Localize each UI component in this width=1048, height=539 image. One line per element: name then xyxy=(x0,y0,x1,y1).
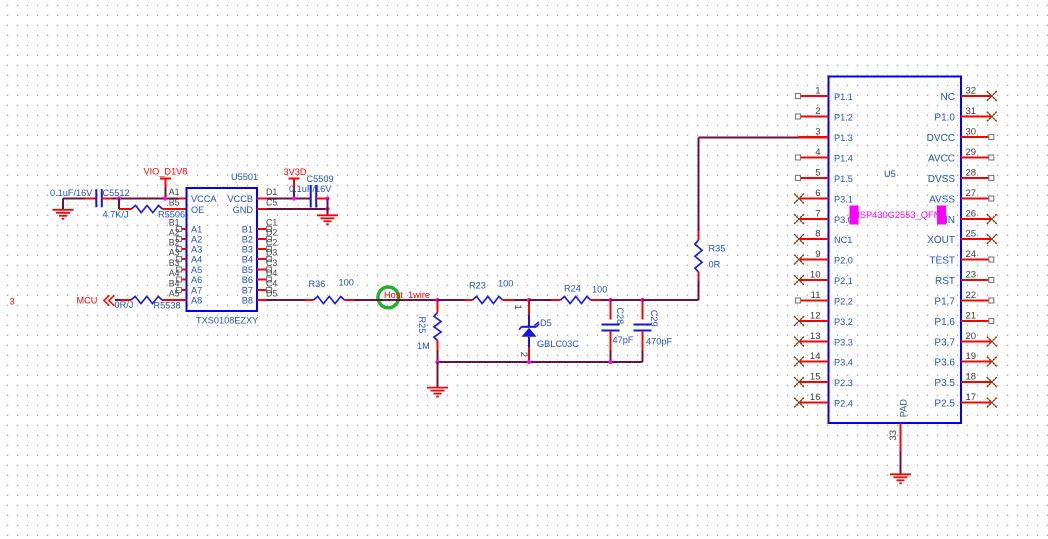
U5 pin 30 name DVCC xyxy=(927,133,955,144)
U5 pin 8 no-connect X xyxy=(795,235,804,244)
U5501 pin A2 unconnected square xyxy=(177,237,182,242)
U5501 ball label C1 xyxy=(266,218,277,228)
svg-text:P1.6: P1.6 xyxy=(934,317,955,328)
U5 pin 28 unconnected square xyxy=(989,176,994,181)
U5 pin 2 number xyxy=(815,106,820,117)
wire C5509 right to ground node xyxy=(316,198,327,200)
U5 pin 11 name P2.2 xyxy=(834,297,853,307)
U5 pin 31 stub xyxy=(961,116,991,118)
U5501 ball label D3 xyxy=(266,248,277,258)
U5501 pin A1 unconnected square xyxy=(177,227,182,232)
U5 pin 9 number xyxy=(815,249,820,260)
U5 pin 10 name P2.1 xyxy=(834,276,853,286)
svg-text:B6: B6 xyxy=(242,275,253,285)
U5501 pin A3 unconnected square xyxy=(177,247,182,252)
U5 pin 2 unconnected square xyxy=(796,114,801,119)
U5 pin 22 number xyxy=(966,290,977,301)
U5501 pin A6 unconnected square xyxy=(177,277,182,282)
svg-text:P2.1: P2.1 xyxy=(834,276,853,286)
resistor R23 xyxy=(465,296,515,303)
svg-text:20: 20 xyxy=(966,331,977,342)
U5501 pin OE name xyxy=(191,205,204,215)
diode D5 part label GBLC03C xyxy=(537,339,579,349)
U5 pin 5 unconnected square xyxy=(796,176,801,181)
U5 pin 21 stub xyxy=(961,320,989,322)
U5501 ball label A4 xyxy=(169,268,180,278)
U5 pin 28 name DVSS xyxy=(928,174,956,185)
U5501 pin B3 unconnected square xyxy=(267,247,272,252)
svg-text:NC: NC xyxy=(941,92,955,103)
svg-text:DVSS: DVSS xyxy=(928,174,956,185)
U5 pin 15 stub xyxy=(799,381,829,383)
svg-text:6: 6 xyxy=(815,188,820,199)
U5 pin 25 number xyxy=(966,229,977,240)
U5 pin 1 stub xyxy=(801,95,829,97)
U5 pin 13 stub xyxy=(799,341,829,343)
U5 pin 5 number xyxy=(815,168,820,179)
svg-text:27: 27 xyxy=(966,188,977,199)
wire C5512 to VCCA xyxy=(102,198,187,200)
U5 pin 16 stub xyxy=(799,402,829,404)
svg-text:31: 31 xyxy=(966,106,977,117)
diode D5 cathode wire xyxy=(528,337,530,362)
U5501 pin A5 unconnected square xyxy=(177,267,182,272)
node junction 3V3D/VCCB xyxy=(292,196,296,200)
U5 pin 7 no-connect X xyxy=(795,215,804,224)
resistor R35 ref label xyxy=(709,244,726,254)
U5 pin 20 stub xyxy=(961,341,991,343)
U5 pin 17 number xyxy=(966,392,977,403)
U5 pin 9 no-connect X xyxy=(795,255,804,264)
svg-text:18: 18 xyxy=(966,372,977,383)
svg-text:16: 16 xyxy=(810,392,821,403)
U5 pin 21 unconnected square xyxy=(989,319,994,324)
svg-text:14: 14 xyxy=(810,351,821,362)
svg-text:3V3D: 3V3D xyxy=(284,167,307,177)
U5 pin 28 number xyxy=(966,168,977,179)
U5501 pin A1 name xyxy=(191,225,202,235)
svg-text:17: 17 xyxy=(966,392,977,403)
U5 pin 16 no-connect X xyxy=(795,398,804,407)
U5 pin 10 no-connect X xyxy=(795,276,804,285)
capacitor C29 xyxy=(634,300,652,362)
wire D5 to R24 xyxy=(529,299,551,301)
power VIO_D1V8 symbol xyxy=(160,179,171,199)
svg-text:DVCC: DVCC xyxy=(927,133,955,144)
U5501 ball label D4 xyxy=(266,268,277,278)
U5 pin 27 name AVSS xyxy=(929,195,955,206)
svg-text:9: 9 xyxy=(815,249,820,260)
svg-text:24: 24 xyxy=(966,249,977,260)
resistor R24 ref label xyxy=(564,284,581,294)
U5 pin 1 name P1.1 xyxy=(834,92,853,102)
U5501 pin VCCB name xyxy=(227,194,253,204)
U5501 ball label D5 xyxy=(266,289,277,299)
U5 pin 6 no-connect X xyxy=(795,194,804,203)
U5 pin 8 name NC1 xyxy=(834,235,852,245)
U5501 pin A4 unconnected square xyxy=(177,257,182,262)
U5501 pin B7 unconnected square xyxy=(267,288,272,293)
svg-text:22: 22 xyxy=(966,290,977,301)
U5 pin 32 no-connect X xyxy=(987,92,996,101)
U5 pin 21 name P1.6 xyxy=(934,317,955,328)
capacitor C5509 value label xyxy=(289,184,332,194)
svg-text:29: 29 xyxy=(966,147,977,158)
svg-text:OE: OE xyxy=(191,205,204,215)
svg-text:P2.3: P2.3 xyxy=(834,378,853,388)
U5 pin 33 PAD name xyxy=(898,399,908,418)
U5 pin 4 name P1.4 xyxy=(834,154,853,164)
U5 pin 6 stub xyxy=(799,198,829,200)
U5 pin 8 stub xyxy=(799,238,829,240)
U5 pin 29 stub xyxy=(961,157,989,159)
U5 pin 31 name P1.0 xyxy=(934,113,955,124)
U5501 pin B8 name xyxy=(242,296,253,306)
U5501 ball label A2 xyxy=(169,228,180,238)
U5501 pin A3 name xyxy=(191,245,202,255)
U5 pin 7 stub xyxy=(799,218,829,220)
U5501 pin OE ball label B5 xyxy=(169,198,180,208)
U5501 ball label A3 xyxy=(169,248,180,258)
power VIO_D1V8 label xyxy=(144,167,188,177)
U5501 pin A4 stub xyxy=(179,258,187,260)
node junction C5509/gnd xyxy=(325,196,329,200)
node junction C28 top xyxy=(608,298,612,302)
resistor R36 xyxy=(305,296,355,303)
U5 pin 16 number xyxy=(810,392,821,403)
power 3V3D label xyxy=(284,167,307,177)
U5 pin 22 stub xyxy=(961,300,989,302)
svg-text:B8: B8 xyxy=(242,296,253,306)
capacitor C28 value 47pF xyxy=(613,335,634,345)
svg-text:R35: R35 xyxy=(709,244,726,254)
capacitor C5512 xyxy=(96,189,102,207)
svg-text:13: 13 xyxy=(810,331,821,342)
U5501 ball label B3 xyxy=(169,258,180,268)
U5 pin 12 name P3.2 xyxy=(834,317,853,327)
U5 pin 11 number xyxy=(811,290,821,301)
U5 pin 9 stub xyxy=(799,259,829,261)
wire B8 to R36 xyxy=(257,299,305,301)
svg-text:MSP430G2553_QFN: MSP430G2553_QFN xyxy=(852,210,940,220)
svg-text:10: 10 xyxy=(810,270,821,281)
wire bottom rail xyxy=(438,361,643,363)
svg-text:U5501: U5501 xyxy=(231,172,258,182)
svg-text:A5: A5 xyxy=(191,265,202,275)
resistor R36 ref label xyxy=(309,279,326,289)
U5501 pin A5 name xyxy=(191,265,202,275)
svg-text:C29: C29 xyxy=(649,310,659,327)
svg-text:12: 12 xyxy=(810,311,821,322)
node junction rail/R25 xyxy=(435,360,439,364)
U5501 pin B3 stub xyxy=(257,248,267,250)
U5 pin 31 no-connect X xyxy=(987,112,996,121)
capacitor C5512 ref label xyxy=(103,188,130,198)
wire R23 to D5 node xyxy=(515,299,530,301)
U5501 pin B1 name xyxy=(242,225,253,235)
resistor R24 xyxy=(551,296,601,303)
svg-text:P3.5: P3.5 xyxy=(934,378,955,389)
U5 pin 24 number xyxy=(966,249,977,260)
svg-text:P1.4: P1.4 xyxy=(834,154,853,164)
U5 pin 14 no-connect X xyxy=(795,357,804,366)
svg-text:1: 1 xyxy=(512,305,523,310)
svg-text:B2: B2 xyxy=(242,235,253,245)
U5501 pin A4 name xyxy=(191,255,202,265)
U5 pin 12 number xyxy=(810,311,821,322)
U5501 pin B2 unconnected square xyxy=(267,237,272,242)
svg-text:19: 19 xyxy=(966,351,977,362)
svg-text:VCCA: VCCA xyxy=(191,194,217,204)
U5 ref label xyxy=(884,169,896,179)
U5 pin 9 name P2.0 xyxy=(834,256,853,266)
U5 pin 22 name P1.7 xyxy=(934,297,955,308)
U5 pin 26 name XIN xyxy=(938,215,955,226)
U5 pin 13 name P3.3 xyxy=(834,338,853,348)
svg-text:GND: GND xyxy=(233,205,254,215)
resistor R36 value 100 xyxy=(339,278,354,288)
U5 pin 29 name AVCC xyxy=(928,154,955,165)
resistor R35 value 0R xyxy=(709,260,721,270)
U5501 pin B2 name xyxy=(242,235,253,245)
resistor R25 xyxy=(434,300,441,362)
U5501 ball label A5 xyxy=(169,289,180,299)
svg-text:P2.2: P2.2 xyxy=(834,297,853,307)
U5 pin 20 name P3.7 xyxy=(934,338,955,349)
svg-text:P1.1: P1.1 xyxy=(834,92,853,102)
svg-text:PAD: PAD xyxy=(898,399,908,418)
svg-text:A3: A3 xyxy=(191,245,202,255)
svg-text:Host_1wire: Host_1wire xyxy=(384,290,430,300)
U5501 pin B4 stub xyxy=(257,258,267,260)
node junction D5 top xyxy=(527,298,531,302)
U5501 pin B5 unconnected square xyxy=(267,267,272,272)
svg-text:B5: B5 xyxy=(169,198,180,208)
svg-text:AVSS: AVSS xyxy=(929,195,955,206)
svg-text:P3.2: P3.2 xyxy=(834,317,853,327)
svg-text:0.1uF/16V: 0.1uF/16V xyxy=(289,184,332,194)
U5 pin 32 name NC xyxy=(941,92,955,103)
U5501 pin B6 unconnected square xyxy=(267,277,272,282)
svg-text:NC1: NC1 xyxy=(834,235,852,245)
svg-text:100: 100 xyxy=(339,278,354,288)
wire node to R23 xyxy=(438,299,465,301)
U5501 pin A7 stub xyxy=(179,289,187,291)
U5 pin 12 stub xyxy=(799,320,829,322)
node junction GND wire xyxy=(325,207,329,211)
U5 pin 2 name P1.2 xyxy=(834,113,853,123)
U5 pin 19 name P3.6 xyxy=(934,358,955,369)
sheet entry number 3 xyxy=(10,297,15,307)
U5 pin 10 number xyxy=(810,270,821,281)
U5501 pin A2 name xyxy=(191,235,202,245)
capacitor C28 ref label xyxy=(615,307,625,324)
U5 pin 11 stub xyxy=(801,300,829,302)
resistor R5506 value 4.7K/J xyxy=(103,210,129,220)
diode D5 anode wire xyxy=(528,300,530,327)
U5 pin 8 number xyxy=(815,229,820,240)
svg-text:A4: A4 xyxy=(191,255,202,265)
resistor R23 ref label xyxy=(469,281,486,291)
resistor R5538 value 0R/J xyxy=(115,300,134,310)
op-amp U5 body (MSP430G2553_QFN) xyxy=(829,77,962,424)
svg-text:47pF: 47pF xyxy=(613,335,634,345)
svg-text:7: 7 xyxy=(815,209,820,220)
U5 pin 23 unconnected square xyxy=(989,278,994,283)
U5 pin 5 name P1.5 xyxy=(834,174,853,184)
svg-text:R25: R25 xyxy=(417,317,427,334)
resistor R35 xyxy=(695,231,702,281)
svg-text:4.7K/J: 4.7K/J xyxy=(103,210,129,220)
capacitor C5509 ref label xyxy=(307,174,334,184)
svg-text:A2: A2 xyxy=(191,235,202,245)
svg-text:1: 1 xyxy=(815,86,820,97)
wire C5512 left to ground xyxy=(63,198,96,200)
wire junction down to OE row xyxy=(118,199,120,210)
svg-text:P3.1: P3.1 xyxy=(834,195,853,205)
U5 pin 17 name P2.5 xyxy=(934,399,955,410)
U5 pin 7 number xyxy=(815,209,820,220)
wire GND pin to ground xyxy=(257,208,328,210)
resistor R5538 xyxy=(131,296,187,303)
U5 pin 26 stub xyxy=(961,218,991,220)
U5501 ball label B2 xyxy=(169,238,180,248)
U5 pin 32 stub xyxy=(961,95,991,97)
svg-text:P3.3: P3.3 xyxy=(834,338,853,348)
svg-text:8: 8 xyxy=(815,229,820,240)
U5 pin 14 name P3.4 xyxy=(834,358,853,368)
svg-text:21: 21 xyxy=(966,311,977,322)
U5 pin 4 stub xyxy=(801,157,829,159)
svg-text:30: 30 xyxy=(966,127,977,138)
diode D5 pin number 2 xyxy=(518,352,529,357)
U5501 pin B1 unconnected square xyxy=(267,227,272,232)
U5501 pin A5 stub xyxy=(179,269,187,271)
U5501 pin B4 name xyxy=(242,255,253,265)
U5 pin 23 name RST xyxy=(935,276,955,287)
U5 pin 33 number xyxy=(888,430,899,441)
svg-text:B4: B4 xyxy=(242,255,253,265)
U5 pin 15 no-connect X xyxy=(795,378,804,387)
net highlight circle on Host_1wire xyxy=(378,287,399,308)
svg-text:A1: A1 xyxy=(191,225,202,235)
U5 pin 24 unconnected square xyxy=(989,257,994,262)
U5501 pin B6 name xyxy=(242,275,253,285)
U5 pin 28 stub xyxy=(961,177,989,179)
U5501 ball label C4 xyxy=(266,279,277,289)
svg-text:B7: B7 xyxy=(242,286,253,296)
U5501 part label TXS0108EZXY xyxy=(196,316,258,326)
U5 pin 6 name P3.1 xyxy=(834,195,853,205)
magenta highlight block left xyxy=(850,206,859,225)
svg-text:2: 2 xyxy=(815,106,820,117)
U5 pin 4 number xyxy=(815,147,820,158)
U5 pin 24 name TEST xyxy=(929,256,955,267)
U5501 pin B5 name xyxy=(242,265,253,275)
wire down to ground (C5509) xyxy=(327,199,329,216)
svg-text:R5538: R5538 xyxy=(154,301,181,311)
wire R24 to C28 node xyxy=(601,299,611,301)
svg-text:R24: R24 xyxy=(564,284,581,294)
U5501 pin GND name xyxy=(233,205,254,215)
U5 pin 1 number xyxy=(815,86,820,97)
U5501 ball label B4 xyxy=(169,279,180,289)
capacitor C29 value 470pF xyxy=(646,337,672,347)
svg-text:P1.0: P1.0 xyxy=(934,113,955,124)
U5 pin 10 stub xyxy=(799,279,829,281)
U5 pin 30 number xyxy=(966,127,977,138)
wire C29 node to R35 xyxy=(643,281,699,301)
svg-text:D5: D5 xyxy=(266,289,277,299)
U5501 ball label B1 xyxy=(169,218,180,228)
svg-text:P2.4: P2.4 xyxy=(834,399,853,409)
node junction C5512/R5506 xyxy=(117,196,121,200)
U5 pin 15 number xyxy=(810,372,821,383)
U5 pin 26 number xyxy=(966,209,977,220)
svg-text:P2.0: P2.0 xyxy=(834,256,853,266)
svg-text:VIO_D1V8: VIO_D1V8 xyxy=(144,167,188,177)
U5 pin 15 name P2.3 xyxy=(834,378,853,388)
U5 pin 27 stub xyxy=(961,198,989,200)
net label Host_1wire xyxy=(384,290,430,300)
resistor R5506 xyxy=(119,205,187,212)
wire VCCB to C5509 xyxy=(257,198,311,200)
svg-text:A7: A7 xyxy=(191,286,202,296)
U5 pin 25 name XOUT xyxy=(927,235,955,246)
node junction VIO_D1V8/VCCA xyxy=(163,196,167,200)
ground (C5509) xyxy=(317,215,338,224)
U5501 pin A6 stub xyxy=(179,279,187,281)
U5501 pin GND ball label C5 xyxy=(266,198,277,208)
svg-text:23: 23 xyxy=(966,270,977,281)
U5 pin 24 stub xyxy=(961,259,989,261)
wire MCU to R5538 xyxy=(115,299,131,301)
U5 pin 3 number xyxy=(815,127,820,138)
svg-text:4: 4 xyxy=(815,147,820,158)
wire R36 to node Host_1wire xyxy=(355,299,438,301)
svg-text:P1.3: P1.3 xyxy=(834,133,853,143)
U5 pin 29 unconnected square xyxy=(989,155,994,160)
U5 pin 11 unconnected square xyxy=(796,298,801,303)
U5 pin 3 name P1.3 xyxy=(834,133,853,143)
svg-text:C5512: C5512 xyxy=(103,188,130,198)
U5501 ball label D2 xyxy=(266,228,277,238)
diode D5 (TVS) symbol xyxy=(519,324,539,337)
svg-text:MCU: MCU xyxy=(77,296,98,306)
U5501 pin B5 stub xyxy=(257,269,267,271)
U5 pin 14 number xyxy=(810,351,821,362)
resistor R23 value 100 xyxy=(498,279,513,289)
svg-text:32: 32 xyxy=(966,86,977,97)
resistor R5506 ref label xyxy=(158,210,185,220)
ground (C5512) xyxy=(53,199,74,219)
svg-text:TXS0108EZXY: TXS0108EZXY xyxy=(196,316,258,326)
svg-text:0R: 0R xyxy=(709,260,721,270)
resistor R5538 ref label xyxy=(154,301,181,311)
node junction D5 bottom xyxy=(527,360,531,364)
svg-text:A8: A8 xyxy=(191,296,202,306)
U5501 ball label C3 xyxy=(266,258,277,268)
U5 pin 13 number xyxy=(810,331,821,342)
svg-text:0R/J: 0R/J xyxy=(115,300,134,310)
svg-text:U5: U5 xyxy=(884,169,896,179)
U5501 pin B1 stub xyxy=(257,228,267,230)
svg-text:25: 25 xyxy=(966,229,977,240)
svg-text:B3: B3 xyxy=(242,245,253,255)
U5501 ball label C2 xyxy=(266,238,277,248)
svg-text:15: 15 xyxy=(810,372,821,383)
svg-text:TEST: TEST xyxy=(929,256,955,267)
